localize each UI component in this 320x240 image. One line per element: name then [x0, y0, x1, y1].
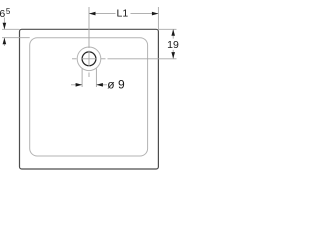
- centerline horizontal: [72, 58, 177, 60]
- extension line top edge left: [2, 28, 20, 30]
- drain hole circle: [82, 52, 96, 66]
- drain outer circle: [77, 47, 101, 71]
- svg-text:5: 5: [6, 7, 11, 16]
- svg-text:6: 6: [0, 8, 5, 20]
- dimension 6.5: [0, 7, 11, 46]
- extension line inner edge left: [2, 37, 30, 39]
- extension line right edge top: [157, 7, 159, 29]
- tray outer edge: [20, 29, 159, 169]
- dimension 19: [167, 29, 179, 58]
- svg-text:L1: L1: [117, 8, 129, 20]
- dimension ø9: [71, 78, 125, 92]
- extension lines drain hole: [81, 69, 83, 88]
- centerline vertical: [88, 7, 90, 77]
- svg-text:ø 9: ø 9: [107, 78, 125, 92]
- extension line top edge right: [158, 28, 176, 30]
- svg-text:19: 19: [167, 39, 179, 51]
- dimension L1: [89, 8, 158, 20]
- tray inner edge: [30, 38, 148, 156]
